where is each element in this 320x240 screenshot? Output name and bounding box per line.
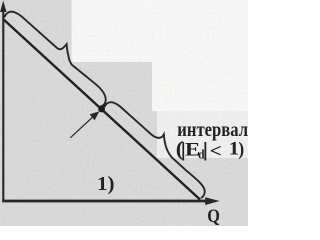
pointer arrow to dot: [70, 116, 93, 138]
Q axis arrowhead: [205, 197, 220, 205]
paper grain: [0, 0, 248, 226]
P axis (vertical): [2, 9, 4, 202]
text zone lighter paper: [157, 111, 248, 158]
white region top-right: [72, 0, 249, 158]
label: (|Ed| < 1): [176, 136, 244, 161]
upper brace (elastic interval): [4, 12, 105, 107]
P axis arrowhead: [0, 1, 6, 13]
cusp tip thickening upper: [65, 44, 67, 46]
dot (midpoint node): [98, 106, 105, 113]
demand line D: [4, 20, 200, 200]
cusp tip thickening lower: [162, 134, 164, 136]
Q axis (horizontal): [2, 200, 208, 203]
gray paper background: [0, 0, 248, 226]
lower brace (inelastic interval): [104, 102, 204, 198]
